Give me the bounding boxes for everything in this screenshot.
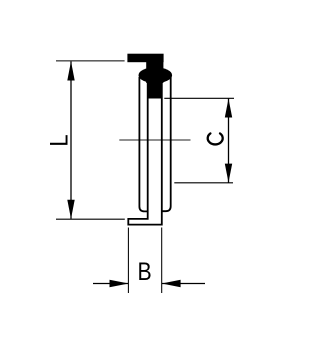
inner bore and foot outline <box>128 77 162 225</box>
dimension B left arrow <box>110 280 129 287</box>
dimension C bottom arrow <box>225 164 232 183</box>
ellipse bulb <box>139 67 173 83</box>
dimension C top extension line <box>164 97 234 99</box>
label B <box>138 257 152 285</box>
label C <box>208 133 223 144</box>
dimension B right arrow <box>162 280 181 287</box>
dimension C line <box>228 99 230 183</box>
dimension L top arrow <box>67 61 74 80</box>
svg-text:B: B <box>138 257 152 285</box>
dimension L bottom extension line <box>56 218 125 220</box>
svg-text:L: L <box>45 134 73 146</box>
handle bar <box>127 54 163 63</box>
dimension C bottom extension line <box>174 182 233 184</box>
dimension L line <box>70 62 72 219</box>
handle stem <box>146 58 163 83</box>
centerline (port axis) <box>119 139 190 141</box>
dimension B right lead line <box>162 283 205 285</box>
outer wall left line with curled end <box>139 77 147 211</box>
dimension B left lead line <box>93 283 128 285</box>
dimension B left extension line <box>127 228 129 294</box>
dimension C top arrow <box>225 99 232 118</box>
dimension L bottom arrow <box>67 200 74 219</box>
dimension B right extension line <box>161 228 163 294</box>
plug in bore <box>148 80 161 99</box>
label L <box>45 134 73 146</box>
outer wall right line with curled end <box>162 77 171 211</box>
dimension L top extension line <box>56 60 125 62</box>
